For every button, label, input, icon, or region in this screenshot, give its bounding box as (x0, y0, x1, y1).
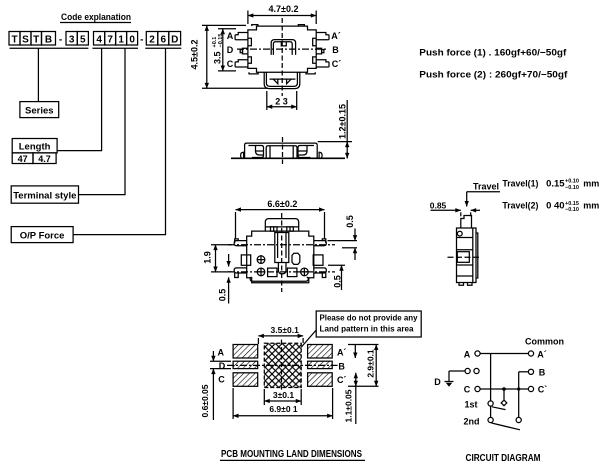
svg-text:-: - (140, 35, 143, 46)
crosshair pad left-low (257, 268, 265, 276)
svg-text:0.85: 0.85 (430, 201, 447, 211)
edge bump left upper (248, 38, 252, 45)
ground (448, 371, 450, 382)
svg-text:Terminal style: Terminal style (13, 191, 76, 202)
svg-text:2nd: 2nd (463, 417, 479, 427)
leader wire to O/P Force box (73, 48, 165, 234)
wire row A (480, 353, 528, 355)
svg-text:3: 3 (69, 35, 75, 46)
terminal A (475, 351, 480, 356)
svg-text:+0.10: +0.10 (565, 179, 579, 185)
edge bump right upper (313, 38, 317, 45)
land centerline vertical (281, 340, 283, 392)
svg-text:A´: A´ (331, 31, 341, 41)
Series box (20, 102, 59, 118)
centerline horizontal (top view) (237, 48, 327, 50)
svg-text:4.7: 4.7 (38, 154, 51, 164)
contact 2nd left (488, 417, 493, 422)
title: Code explanation (61, 12, 131, 23)
centerline vertical (bottom view) (281, 213, 283, 292)
wire row C (480, 388, 528, 390)
protrusion tab left (273, 79, 278, 84)
pin A (top view) (235, 33, 248, 40)
svg-text:6.6±0.2: 6.6±0.2 (267, 199, 297, 209)
code digit box 4 (94, 32, 105, 46)
terminal C' (528, 386, 533, 391)
travel leader arrow (466, 192, 468, 207)
pad D (233, 361, 258, 368)
land centerline horizontal (227, 364, 338, 366)
centerline vertical (top view) (281, 18, 283, 96)
crosshair pad left-mid (257, 256, 265, 264)
svg-text:-: - (59, 35, 62, 46)
svg-text:Push force (1) . 160gf+60/−50: Push force (1) . 160gf+60/−50gf (419, 48, 567, 58)
code letter box B (42, 32, 56, 46)
body bottom inner line (250, 277, 308, 281)
svg-text:O/P Force: O/P Force (20, 231, 65, 242)
code letter box S (20, 32, 31, 46)
junction dot row C / V3 (517, 387, 520, 390)
contact D left (465, 368, 470, 373)
svg-text:C: C (464, 385, 471, 395)
svg-text:0: 0 (129, 35, 135, 46)
switch arm 2nd (492, 423, 521, 430)
wing terminal lower-left (234, 268, 246, 273)
side view left outer curl (241, 152, 244, 158)
Terminal style box (11, 186, 78, 203)
svg-text:−0.10: −0.10 (565, 185, 579, 191)
dome (bottom view) (265, 219, 298, 232)
svg-text:Travel(2): Travel(2) (502, 201, 538, 211)
svg-text:B: B (539, 368, 546, 378)
wing terminal lower-right (314, 268, 327, 273)
svg-text:+0.15: +0.15 (565, 201, 579, 207)
svg-text:3.5: 3.5 (212, 51, 222, 64)
svg-text:D: D (171, 35, 178, 46)
svg-text:A´: A´ (337, 348, 347, 358)
pad C' (308, 373, 333, 387)
pin B stub (316, 48, 321, 54)
svg-text:S: S (22, 35, 29, 46)
seating plane line (231, 157, 345, 159)
svg-text:mm: mm (583, 178, 599, 188)
pin C' (top view) (316, 60, 329, 67)
svg-text:47: 47 (18, 154, 28, 164)
wing terminal upper-left (234, 241, 246, 246)
travel view plunger (461, 216, 472, 229)
note leader (298, 330, 317, 352)
underline group 4710 (92, 47, 138, 49)
note box (316, 311, 421, 337)
leader wire to Terminal style box (79, 48, 126, 194)
svg-text:0.6±0.05: 0.6±0.05 (200, 384, 210, 417)
side view right terminal (298, 146, 314, 158)
inner rect left (241, 255, 250, 265)
svg-text:A: A (464, 350, 471, 360)
code digit box 2 (146, 32, 158, 46)
center keep-out area (264, 343, 301, 387)
wire V3 (518, 372, 520, 418)
svg-text:6: 6 (161, 35, 167, 46)
travel view centerline (448, 256, 482, 258)
svg-text:0.5: 0.5 (217, 289, 227, 302)
pin C (top view) (235, 60, 248, 67)
svg-text:C`: C` (538, 385, 548, 395)
Length value box 4.7 (33, 153, 56, 164)
protrusion floor line (270, 78, 296, 80)
side view right outer curl (319, 152, 322, 158)
bottom protrusion (top view) (264, 72, 300, 88)
svg-text:A: A (218, 348, 225, 358)
svg-text:Common: Common (525, 337, 564, 347)
svg-text:B: B (332, 45, 339, 55)
side view left terminal (248, 146, 263, 158)
svg-text:C´: C´ (337, 375, 347, 385)
code digit box 3 (66, 32, 77, 46)
side view centerline (282, 137, 284, 164)
svg-text:4.5±0.2: 4.5±0.2 (189, 40, 199, 70)
Length box (12, 139, 57, 153)
center clip feature (271, 40, 295, 55)
svg-text:Land pattern in this area: Land pattern in this area (320, 325, 415, 334)
svg-text:mm: mm (583, 201, 599, 211)
svg-text:D: D (434, 377, 441, 387)
svg-text:C: C (218, 375, 225, 385)
switch body (top view) (248, 26, 316, 72)
edge bump right lower (313, 57, 317, 63)
svg-text:Series: Series (25, 106, 54, 117)
pin D stub (243, 48, 248, 54)
corner tab top-left (252, 25, 258, 27)
contact 1st left (488, 401, 493, 406)
travel view body (457, 228, 477, 283)
svg-text:0.15: 0.15 (546, 178, 565, 188)
svg-text:C: C (227, 59, 234, 69)
dimension 3.5 +0.1/-0.15 (212, 34, 224, 64)
svg-text:Please do not provide any: Please do not provide any (320, 314, 419, 323)
O/P Force box (11, 227, 73, 243)
pad A (233, 345, 258, 359)
underline group 26D (145, 47, 181, 49)
svg-text:B: B (338, 362, 345, 372)
svg-text:Length: Length (19, 142, 51, 153)
svg-text:PCB MOUNTING LAND DIMENSION: PCB MOUNTING LAND DIMENSIONS (221, 449, 362, 460)
code digit box 5 (77, 32, 88, 46)
svg-text:D: D (227, 45, 234, 55)
wing nub lower-left (235, 273, 239, 278)
code digit box 0 (127, 32, 138, 46)
svg-text:6.9±0 1: 6.9±0 1 (269, 404, 298, 414)
wing nub upper-right (322, 239, 326, 243)
terminal C (475, 386, 480, 391)
pad C (233, 373, 258, 387)
wire V1 (490, 354, 492, 401)
svg-text:2 3: 2 3 (275, 97, 288, 107)
leader wire to Length box (57, 48, 102, 150)
svg-text:CIRCUIT DIAGRAM: CIRCUIT DIAGRAM (466, 453, 541, 464)
center octagon cutout (292, 253, 300, 264)
protrusion tab right (287, 79, 292, 84)
inner square bottom-right (287, 268, 297, 277)
svg-text:−0.10: −0.10 (565, 207, 579, 213)
svg-text:0.5: 0.5 (345, 215, 355, 228)
svg-text:D: D (219, 361, 226, 371)
svg-text:1.1±0.05: 1.1±0.05 (343, 389, 353, 422)
corner tab top-right (298, 25, 304, 27)
svg-text:T: T (11, 35, 17, 46)
svg-text:1.2±0.15: 1.2±0.15 (338, 104, 348, 139)
svg-text:4: 4 (96, 35, 102, 46)
contact 2nd right (516, 417, 521, 422)
svg-text:C´: C´ (332, 59, 342, 69)
svg-text:1.9: 1.9 (203, 251, 213, 264)
Length value box 47 (12, 153, 33, 164)
pin A' (top view) (316, 33, 329, 40)
svg-text:1st: 1st (464, 400, 477, 410)
svg-text:A´: A´ (537, 350, 547, 360)
svg-text:Code explanation: Code explanation (61, 12, 131, 23)
code letter box T1 (9, 32, 20, 46)
terminal A' (528, 351, 533, 356)
travel view feet (459, 283, 472, 286)
code digit box 6 (158, 32, 169, 46)
underline group TSTB-35 (10, 47, 89, 49)
crosshair pad right-low (301, 268, 309, 276)
code letter box T2 (31, 32, 42, 46)
svg-text:7: 7 (107, 35, 113, 46)
inner square bottom-left (268, 268, 277, 277)
side view center block (266, 146, 297, 158)
code digit box 1 (116, 32, 127, 46)
wire V2 (503, 389, 505, 400)
centerline horizontal lower (bottom view) (228, 271, 335, 273)
travel spec 1 (502, 178, 599, 190)
svg-text:1: 1 (118, 35, 124, 46)
leader wire to Series box (37, 48, 39, 101)
inner rect right (313, 255, 323, 265)
svg-text:T: T (33, 35, 39, 46)
pad B (308, 361, 333, 368)
bottom view body (247, 231, 314, 283)
switch arm 1st (492, 407, 506, 410)
svg-text:3±0.1: 3±0.1 (273, 390, 294, 400)
edge bump left lower (248, 57, 252, 63)
travel view center box (457, 252, 469, 263)
svg-text:Travel(1): Travel(1) (502, 178, 538, 188)
svg-text:B: B (45, 35, 52, 46)
travel spec 2 (502, 201, 599, 213)
wire B row (519, 371, 529, 373)
junction dot row C / V2 (502, 387, 506, 391)
plunger (bottom view) (275, 233, 289, 263)
wing nub lower-right (322, 273, 326, 278)
A' pad bottom arrow (354, 345, 356, 359)
wing nub upper-left (235, 239, 239, 243)
contact D right (474, 368, 479, 373)
svg-text:2: 2 (149, 35, 155, 46)
svg-text:0 40: 0 40 (546, 201, 565, 211)
side view body (245, 143, 318, 158)
svg-text:5: 5 (80, 35, 86, 46)
svg-text:A: A (227, 31, 234, 41)
code digit box 7 (105, 32, 116, 46)
contact 1st right (diamond) (501, 400, 507, 406)
svg-text:Push force (2) : 260gf+70/−50: Push force (2) : 260gf+70/−50gf (419, 70, 568, 80)
pad A' (308, 345, 333, 359)
svg-text:4.7±0.2: 4.7±0.2 (269, 4, 299, 14)
svg-text:Travel: Travel (473, 182, 499, 192)
wing terminal upper-right (314, 241, 327, 246)
svg-text:3.5±0.1: 3.5±0.1 (271, 325, 300, 335)
wire D row (449, 370, 465, 372)
centerline horizontal upper (bottom view) (228, 244, 335, 246)
svg-text:2.9±0.1: 2.9±0.1 (365, 349, 375, 378)
corner tab bottom-left (249, 72, 258, 74)
terminal B (528, 369, 533, 374)
code letter box D (169, 32, 181, 46)
corner tab bottom-right (306, 72, 315, 74)
